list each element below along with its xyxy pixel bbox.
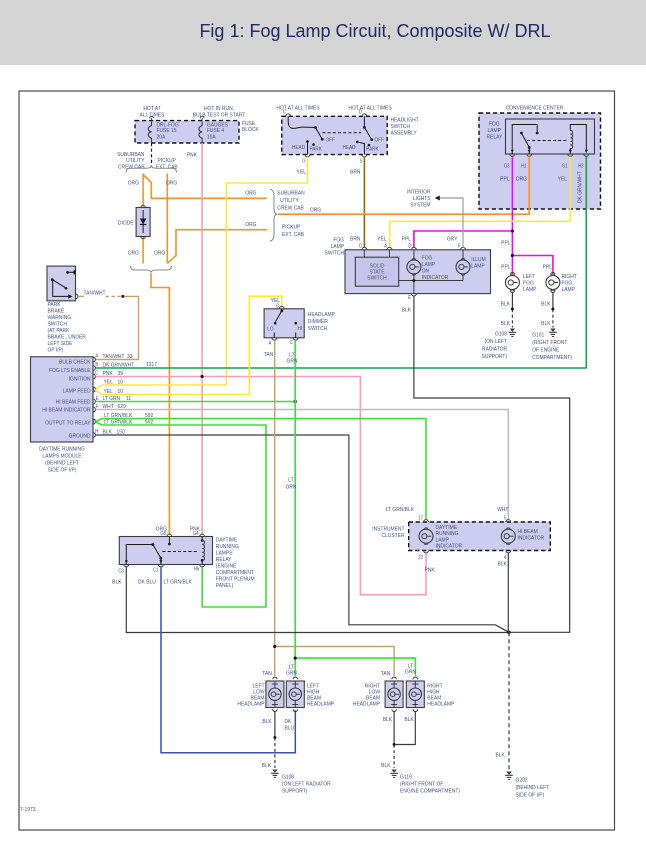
svg-text:COMPARTMENT: COMPARTMENT bbox=[216, 570, 255, 576]
svg-text:OF I/P): OF I/P) bbox=[48, 347, 64, 353]
svg-text:HEADLAMP: HEADLAMP bbox=[353, 701, 380, 707]
pin B module bbox=[93, 362, 98, 371]
svg-text:DIODE: DIODE bbox=[118, 220, 134, 226]
svg-text:ASSEMBLY: ASSEMBLY bbox=[391, 130, 418, 136]
svg-text:PNK: PNK bbox=[425, 567, 436, 573]
svg-text:ON: ON bbox=[422, 268, 429, 274]
wire BLK DRL relay C3 to ground junction bbox=[112, 567, 509, 633]
svg-text:(ON LEFT RADIATOR: (ON LEFT RADIATOR bbox=[282, 781, 331, 787]
svg-text:RELAY: RELAY bbox=[216, 557, 232, 563]
svg-text:EXT. CAB: EXT. CAB bbox=[156, 164, 178, 170]
fog switch internal ground bus bbox=[399, 274, 463, 294]
wire ORG pickup feed branch bbox=[167, 222, 304, 264]
pin A fog switch bbox=[384, 243, 392, 257]
svg-text:592: 592 bbox=[145, 413, 153, 419]
svg-text:DK GRN/WHT: DK GRN/WHT bbox=[577, 171, 583, 203]
svg-text:LAMP: LAMP bbox=[488, 128, 502, 134]
svg-text:7-1973: 7-1973 bbox=[20, 807, 36, 813]
brace join cab variants bbox=[131, 266, 172, 273]
DRL relay internal dashed link bbox=[163, 551, 199, 553]
svg-text:LT GRN: LT GRN bbox=[103, 396, 121, 402]
svg-text:LAMP: LAMP bbox=[331, 244, 345, 250]
convenience center bbox=[479, 105, 601, 209]
svg-text:BLOCK: BLOCK bbox=[242, 126, 259, 132]
svg-text:BLK: BLK bbox=[404, 717, 414, 723]
brace split fuse15 variants bbox=[126, 165, 177, 172]
svg-text:BLK: BLK bbox=[383, 717, 393, 723]
wire ORG combined feed to DRL relay G6 bbox=[151, 273, 169, 534]
svg-text:BLK: BLK bbox=[496, 752, 506, 758]
svg-text:(RIGHT FRONT OF: (RIGHT FRONT OF bbox=[400, 781, 444, 787]
daytime running lamps relay bbox=[119, 537, 255, 590]
svg-text:ALL TIMES: ALL TIMES bbox=[140, 112, 165, 118]
wire fuse15 output (dashed, splits to cab variants) bbox=[117, 143, 178, 171]
svg-text:G202: G202 bbox=[516, 777, 528, 783]
svg-text:WHT: WHT bbox=[497, 507, 509, 513]
svg-text:A: A bbox=[95, 353, 99, 358]
pin C fog switch bbox=[359, 243, 367, 257]
svg-text:TAN/WHT: TAN/WHT bbox=[84, 290, 107, 296]
svg-text:H: H bbox=[95, 429, 98, 434]
wire BLK right beams to ground G119 bbox=[381, 712, 415, 769]
svg-text:IGNITION: IGNITION bbox=[69, 376, 91, 382]
ground G108 (on left radiator support) bbox=[482, 329, 517, 361]
svg-text:TAN: TAN bbox=[262, 671, 272, 677]
wire ORG fog lamp relay H1 to cab feed brace bbox=[278, 156, 529, 214]
svg-text:FRONT PLENUM: FRONT PLENUM bbox=[216, 576, 255, 582]
svg-text:LAMP FEED: LAMP FEED bbox=[63, 388, 91, 394]
pin G headlight switch bbox=[302, 155, 310, 164]
svg-text:C: C bbox=[290, 340, 294, 345]
svg-text:GRN: GRN bbox=[286, 484, 297, 490]
pin C1 bbox=[153, 565, 163, 573]
wire BLK left fog lamp to ground G108 bbox=[501, 293, 513, 328]
svg-text:TAN/WHT: TAN/WHT bbox=[103, 354, 126, 360]
svg-text:G101: G101 bbox=[532, 332, 544, 338]
svg-text:BLK: BLK bbox=[103, 429, 113, 435]
svg-text:PPL: PPL bbox=[501, 240, 510, 246]
brace join feed lines bbox=[270, 189, 278, 241]
pin G module bbox=[93, 419, 102, 426]
svg-text:FOG: FOG bbox=[333, 237, 344, 243]
wire BRN headlight switch S to fog switch C bbox=[350, 157, 364, 248]
pin S headlight switch bbox=[360, 155, 367, 164]
svg-text:PARK: PARK bbox=[48, 302, 61, 308]
svg-text:OFF: OFF bbox=[375, 137, 384, 143]
fog lamp relay coil (G1-H3) bbox=[569, 125, 588, 155]
wire LT GRN/BLK 592 upper (module G to cluster 17) bbox=[102, 413, 426, 520]
svg-text:BRAKE: BRAKE bbox=[48, 308, 65, 314]
svg-text:SWITCH: SWITCH bbox=[308, 325, 328, 331]
title bar bbox=[0, 0, 646, 65]
headlight switch left pole (pin C to HEAD/PARK/OFF) bbox=[283, 109, 335, 154]
wire LT GRN/BLK 592 lower (module G to DRL relay H6) bbox=[102, 419, 266, 607]
svg-text:OF ENGINE: OF ENGINE bbox=[532, 347, 559, 353]
left high beam headlamp bbox=[286, 677, 334, 711]
svg-text:H1: H1 bbox=[521, 163, 527, 168]
junction splice left headlamp BLK bbox=[273, 736, 276, 739]
wire YEL 10 lower (module D to dimmer) bbox=[102, 296, 282, 395]
svg-text:10: 10 bbox=[118, 379, 123, 385]
svg-text:20A: 20A bbox=[157, 134, 166, 140]
junction PPL at right fog branch bbox=[511, 254, 514, 257]
fog lamp relay switch (G3-H1) bbox=[511, 125, 539, 155]
svg-text:DAYTIME: DAYTIME bbox=[216, 537, 238, 543]
svg-text:BLK: BLK bbox=[402, 307, 412, 313]
svg-text:E: E bbox=[96, 396, 99, 401]
svg-text:BRAKE , UNDER: BRAKE , UNDER bbox=[48, 334, 86, 340]
svg-text:17: 17 bbox=[418, 515, 423, 520]
pin G4 bbox=[193, 531, 205, 537]
diode bbox=[118, 205, 150, 238]
svg-text:PARK: PARK bbox=[366, 146, 379, 152]
svg-text:LIGHTS: LIGHTS bbox=[413, 196, 431, 202]
wire BLK 150 (module H ground) bbox=[96, 429, 509, 632]
svg-text:G119: G119 bbox=[400, 774, 412, 780]
svg-text:LAMP: LAMP bbox=[562, 287, 576, 293]
svg-text:LAMP: LAMP bbox=[523, 287, 537, 293]
svg-text:BLK: BLK bbox=[112, 579, 122, 585]
pin G1 bbox=[562, 154, 573, 168]
svg-text:BLK: BLK bbox=[262, 719, 272, 725]
svg-text:G4: G4 bbox=[193, 531, 199, 536]
wire PNK 39 (module C) bbox=[96, 371, 426, 595]
svg-text:SWITCH: SWITCH bbox=[367, 275, 387, 281]
headlamp dimmer switch bbox=[264, 298, 335, 338]
svg-text:SUPPORT): SUPPORT) bbox=[482, 354, 508, 360]
wire BLK left low beam to ground G108 bbox=[262, 712, 275, 769]
svg-text:C3: C3 bbox=[118, 568, 124, 573]
DRL relay coil (G4-H6) bbox=[201, 537, 205, 565]
wire YEL headlight switch G to DRL module D bbox=[102, 157, 308, 385]
svg-text:D: D bbox=[408, 243, 412, 248]
svg-text:LAMPS MODULE: LAMPS MODULE bbox=[42, 453, 81, 459]
wire label YEL 10 upper bbox=[104, 379, 123, 385]
svg-text:(ON LEFT: (ON LEFT bbox=[485, 339, 508, 345]
svg-text:INSTRUMENT: INSTRUMENT bbox=[372, 526, 405, 532]
svg-text:A: A bbox=[384, 243, 388, 248]
wire ORG suburban feed branch bbox=[143, 175, 305, 212]
wire BLK cluster 4 to ground junction bbox=[498, 553, 509, 633]
svg-text:HI BEAM: HI BEAM bbox=[518, 529, 539, 535]
svg-text:F: F bbox=[458, 243, 461, 248]
pin A module bbox=[93, 353, 99, 362]
svg-text:LO: LO bbox=[267, 326, 273, 332]
fog lamp on indicator lamp bbox=[407, 255, 449, 281]
wire DK BLU DRL relay C1 to left high beam bbox=[138, 567, 295, 753]
svg-text:TAN: TAN bbox=[381, 671, 391, 677]
svg-text:CREW CAB: CREW CAB bbox=[277, 205, 304, 211]
svg-text:INDICATOR: INDICATOR bbox=[436, 543, 463, 549]
wire GRY fog switch F to interior lights system bbox=[407, 189, 463, 247]
pin G3 bbox=[504, 154, 515, 168]
wire PPL fog relay G3 to fog switch D and fog lamps bbox=[414, 156, 553, 271]
svg-text:OUTPUT TO RELAY: OUTPUT TO RELAY bbox=[45, 420, 91, 426]
svg-text:33: 33 bbox=[127, 354, 132, 360]
wire TAN/WHT park brake to DRL module A bbox=[78, 290, 138, 359]
instrument cluster bbox=[372, 522, 550, 551]
svg-text:FUSE 15: FUSE 15 bbox=[157, 128, 177, 134]
svg-text:FOG: FOG bbox=[562, 280, 573, 286]
svg-text:10: 10 bbox=[118, 389, 123, 395]
svg-text:RUNNING: RUNNING bbox=[216, 544, 239, 550]
pin 22 cluster bbox=[418, 551, 428, 560]
svg-text:BLK: BLK bbox=[541, 321, 551, 327]
pin F fog switch bbox=[458, 243, 465, 260]
svg-text:HOT AT ALL TIMES: HOT AT ALL TIMES bbox=[348, 105, 392, 111]
svg-text:YEL: YEL bbox=[297, 169, 306, 175]
svg-text:TAN: TAN bbox=[264, 352, 274, 358]
svg-text:FOG: FOG bbox=[489, 121, 500, 127]
pin C module bbox=[93, 370, 99, 379]
svg-text:FOG LTS ENABLE: FOG LTS ENABLE bbox=[49, 367, 91, 373]
svg-text:SIDE OF I/P): SIDE OF I/P) bbox=[48, 467, 77, 473]
fog lamp switch bbox=[325, 237, 491, 294]
svg-text:BLK: BLK bbox=[541, 301, 551, 307]
junction PPL at D branch bbox=[511, 229, 514, 232]
daytime running lamps module bbox=[31, 357, 94, 474]
svg-text:CREW CAB: CREW CAB bbox=[118, 164, 145, 170]
illumination lamp bbox=[456, 257, 486, 276]
svg-text:B: B bbox=[95, 362, 98, 367]
daytime running lamp indicator lamp bbox=[419, 525, 462, 550]
ground G119 (right front of engine compartment) bbox=[390, 770, 460, 795]
svg-text:GRN: GRN bbox=[287, 358, 298, 364]
svg-text:CLUSTER: CLUSTER bbox=[382, 533, 405, 539]
pin C dimmer bbox=[290, 338, 298, 345]
svg-text:SWITCH: SWITCH bbox=[48, 321, 68, 327]
svg-text:HI: HI bbox=[298, 326, 303, 332]
wire ORG suburban variant (through diode) bbox=[128, 174, 143, 264]
svg-text:BLK: BLK bbox=[501, 301, 511, 307]
svg-text:BULB CHECK: BULB CHECK bbox=[59, 359, 91, 365]
svg-text:PPL: PPL bbox=[501, 264, 510, 270]
svg-text:F: F bbox=[96, 404, 99, 409]
svg-text:LT: LT bbox=[288, 477, 294, 483]
wire BLK dashed to ground G202 bbox=[496, 632, 510, 770]
svg-text:SUPPORT): SUPPORT) bbox=[282, 788, 308, 794]
right fog lamp bbox=[546, 271, 578, 293]
svg-text:OFF: OFF bbox=[326, 137, 335, 143]
svg-text:SUBURBAN: SUBURBAN bbox=[277, 190, 304, 196]
wire YEL fog relay G1 to fog switch A bbox=[377, 156, 570, 247]
svg-text:ORG: ORG bbox=[245, 222, 256, 228]
svg-text:GRN: GRN bbox=[286, 670, 297, 676]
svg-text:HEADLAMP: HEADLAMP bbox=[237, 701, 264, 707]
svg-text:G6: G6 bbox=[160, 531, 166, 536]
svg-text:HEADLIGHT: HEADLIGHT bbox=[391, 117, 420, 123]
svg-text:SWITCH: SWITCH bbox=[325, 250, 345, 256]
svg-text:DK: DK bbox=[285, 719, 292, 725]
pin F module bbox=[93, 404, 99, 412]
svg-text:RADIATOR: RADIATOR bbox=[482, 346, 507, 352]
DRL relay switch (C3-C1) bbox=[125, 543, 163, 564]
wire ORG pickup variant bbox=[154, 174, 177, 264]
svg-text:ORG: ORG bbox=[166, 180, 177, 186]
svg-text:ILLUM: ILLUM bbox=[471, 257, 486, 263]
wire DK GRN/WHT fog relay H3 to DRL module B bbox=[96, 156, 587, 368]
svg-text:BRN: BRN bbox=[350, 236, 361, 242]
junction fog switch ground bus bbox=[412, 279, 415, 282]
junction splice right fog BLK bbox=[551, 308, 554, 311]
svg-text:H3: H3 bbox=[578, 163, 584, 168]
svg-text:WHT: WHT bbox=[103, 404, 115, 410]
wire LT GRN dimmer C to high beam headlamps bbox=[286, 340, 417, 677]
svg-text:DK GRN/WHT: DK GRN/WHT bbox=[103, 362, 135, 368]
svg-text:ORG: ORG bbox=[245, 190, 256, 196]
pin D fog switch bbox=[408, 243, 416, 260]
svg-text:LEFT: LEFT bbox=[523, 274, 536, 280]
pin 4 cluster bbox=[504, 551, 511, 560]
wire PNK fuse 4 to DRL module C and relay G4 bbox=[187, 143, 202, 534]
svg-text:C: C bbox=[95, 370, 99, 375]
svg-text:C1: C1 bbox=[153, 567, 159, 572]
svg-text:ORG: ORG bbox=[310, 207, 321, 213]
svg-text:BLK: BLK bbox=[381, 762, 391, 768]
svg-text:PANEL): PANEL) bbox=[216, 583, 234, 589]
pin H1 bbox=[516, 154, 532, 183]
pin 17 cluster bbox=[418, 515, 428, 522]
svg-text:G: G bbox=[302, 158, 306, 163]
junction splice TAN/WHT bbox=[121, 295, 124, 298]
svg-text:YEL: YEL bbox=[377, 236, 386, 242]
svg-text:E: E bbox=[408, 295, 411, 300]
junction ground junction dot bbox=[507, 631, 510, 634]
svg-text:(ENGINE: (ENGINE bbox=[216, 563, 237, 569]
svg-text:BLK: BLK bbox=[498, 561, 508, 567]
fog lamp relay internal dashed link bbox=[527, 140, 568, 142]
svg-text:INDICATOR: INDICATOR bbox=[518, 535, 545, 541]
svg-text:4: 4 bbox=[504, 554, 507, 559]
svg-text:HEADLAMP: HEADLAMP bbox=[427, 701, 454, 707]
svg-text:DIMMER: DIMMER bbox=[308, 319, 328, 325]
pin C3 bbox=[118, 565, 128, 574]
fuse GAUGES fuse 4 10A bbox=[199, 116, 228, 142]
svg-text:BLK: BLK bbox=[501, 321, 511, 327]
headlight switch gang dashed link bbox=[322, 132, 361, 134]
ground G101 (right front of engine compartment) bbox=[532, 329, 572, 362]
pin G6 bbox=[160, 531, 171, 537]
wire TAN dimmer A to low beam headlamps bbox=[262, 340, 394, 677]
left low beam headlamp bbox=[237, 677, 283, 711]
pin E fog switch bbox=[408, 294, 416, 300]
junction LT GRN at dimmer HI bbox=[294, 400, 297, 403]
svg-text:RIGHT: RIGHT bbox=[562, 274, 578, 280]
svg-text:ORG: ORG bbox=[154, 250, 165, 256]
svg-text:11: 11 bbox=[126, 396, 131, 402]
svg-text:S: S bbox=[360, 158, 363, 163]
svg-text:PPL: PPL bbox=[402, 236, 411, 242]
svg-text:UTILITY: UTILITY bbox=[280, 198, 299, 204]
svg-text:HI BEAM FEED: HI BEAM FEED bbox=[56, 399, 91, 405]
wire DK GRN/WHT 1317 label bbox=[103, 362, 157, 369]
svg-text:YEL: YEL bbox=[104, 379, 113, 385]
svg-text:LEFT SIDE: LEFT SIDE bbox=[48, 341, 73, 347]
svg-text:SIDE OF I/P): SIDE OF I/P) bbox=[516, 792, 545, 798]
fuse DRL-FOG fuse 15 20A bbox=[148, 116, 178, 142]
svg-text:ENGINE COMPARTMENT): ENGINE COMPARTMENT) bbox=[400, 788, 460, 794]
svg-text:HEAD: HEAD bbox=[343, 145, 356, 151]
svg-text:COMPARTMENT): COMPARTMENT) bbox=[532, 355, 572, 361]
pin H3 bbox=[578, 154, 589, 168]
pin D module bbox=[93, 385, 102, 395]
svg-text:GRN: GRN bbox=[405, 669, 416, 675]
svg-text:SWITCH: SWITCH bbox=[391, 124, 411, 130]
svg-text:592: 592 bbox=[145, 419, 153, 425]
svg-text:LAMP: LAMP bbox=[471, 263, 485, 269]
svg-text:ORG: ORG bbox=[128, 250, 139, 256]
svg-text:HI BEAM INDICATOR: HI BEAM INDICATOR bbox=[42, 407, 90, 413]
svg-text:SYSTEM: SYSTEM bbox=[410, 202, 431, 208]
svg-text:FOG: FOG bbox=[422, 255, 433, 261]
wire LT GRN 11 (module E hi beam feed) bbox=[96, 396, 296, 402]
svg-text:YEL: YEL bbox=[104, 389, 113, 395]
svg-text:LAMPS: LAMPS bbox=[216, 550, 233, 556]
svg-text:LT GRN/BLK: LT GRN/BLK bbox=[164, 579, 193, 585]
wire BLK right fog lamp to ground G101 bbox=[541, 293, 553, 328]
svg-text:INTERIOR: INTERIOR bbox=[407, 189, 431, 195]
svg-text:5: 5 bbox=[504, 515, 507, 520]
junction splice right headlamp BLK bbox=[393, 743, 396, 746]
svg-text:PICKUP: PICKUP bbox=[282, 224, 301, 230]
fuse block bbox=[135, 106, 259, 143]
svg-text:DK BLU: DK BLU bbox=[138, 579, 156, 585]
svg-text:WARNING: WARNING bbox=[48, 315, 72, 321]
svg-text:CONVENIENCE CENTER: CONVENIENCE CENTER bbox=[506, 105, 564, 111]
svg-text:PNK: PNK bbox=[187, 152, 198, 158]
svg-text:HEADLAMP: HEADLAMP bbox=[307, 701, 334, 707]
svg-text:39: 39 bbox=[118, 371, 123, 377]
svg-text:1317: 1317 bbox=[146, 362, 157, 368]
park brake warning switch bbox=[47, 266, 86, 354]
wire WHT 629 (module F to cluster 5) bbox=[96, 404, 509, 520]
svg-text:ORG: ORG bbox=[516, 176, 527, 182]
svg-text:BRN: BRN bbox=[350, 169, 361, 175]
headlight switch assembly bbox=[276, 105, 419, 154]
pin 5 cluster bbox=[504, 515, 511, 522]
svg-text:GRY: GRY bbox=[447, 236, 458, 242]
svg-text:FUSE 4: FUSE 4 bbox=[207, 128, 224, 134]
svg-text:22: 22 bbox=[418, 554, 423, 559]
pin E module bbox=[93, 396, 99, 404]
svg-text:H6: H6 bbox=[194, 566, 200, 571]
svg-text:YEL: YEL bbox=[558, 176, 567, 182]
svg-text:LT GRN/BLK: LT GRN/BLK bbox=[386, 507, 415, 513]
svg-text:ORG: ORG bbox=[128, 180, 139, 186]
headlight switch right pole (pin D to HEAD/PARK/OFF) bbox=[343, 109, 384, 154]
right low beam headlamp bbox=[353, 677, 403, 711]
svg-text:G108: G108 bbox=[495, 331, 507, 337]
svg-text:G108: G108 bbox=[282, 774, 294, 780]
solid state switch U1 bbox=[355, 257, 398, 286]
svg-text:(BEHIND LEFT: (BEHIND LEFT bbox=[516, 785, 550, 791]
svg-text:FOG: FOG bbox=[523, 280, 534, 286]
ground G202 (behind left side of I/P) bbox=[505, 772, 550, 799]
pin H module bbox=[93, 429, 98, 438]
svg-text:LAMP: LAMP bbox=[422, 262, 436, 268]
left fog lamp bbox=[505, 271, 536, 293]
svg-text:(RIGHT FRONT: (RIGHT FRONT bbox=[532, 340, 568, 346]
junction splice left fog BLK bbox=[511, 308, 514, 311]
svg-text:HEAD: HEAD bbox=[292, 145, 305, 151]
svg-text:GROUND: GROUND bbox=[69, 433, 91, 439]
svg-text:LT GRN/BLK: LT GRN/BLK bbox=[104, 413, 133, 419]
wire BLK fog switch E to ground junction bbox=[402, 296, 570, 632]
wire label TAN/WHT 33 bbox=[103, 354, 133, 360]
DRL relay G6 contact bbox=[168, 537, 171, 546]
svg-text:(BEHIND LEFT: (BEHIND LEFT bbox=[45, 460, 79, 466]
fog lamp relay U-relay box bbox=[487, 119, 595, 154]
